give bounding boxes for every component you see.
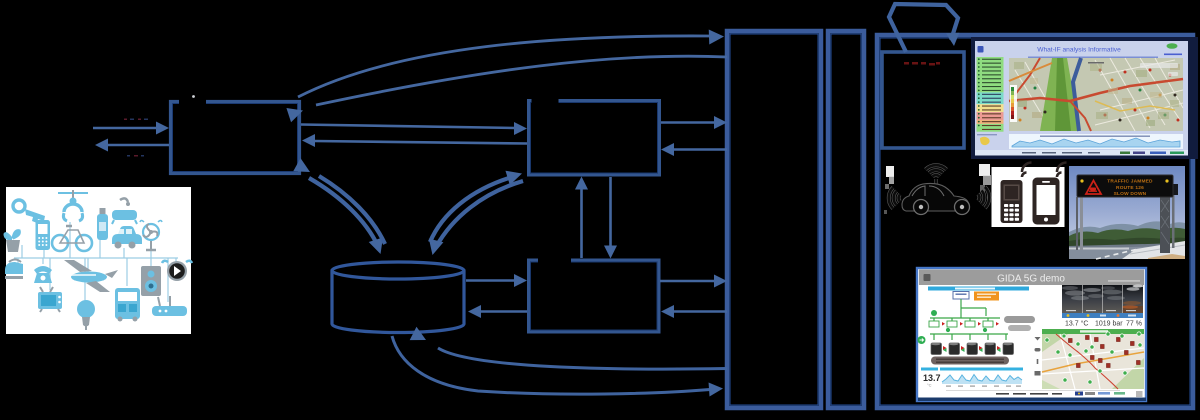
phones white background bbox=[992, 167, 1065, 227]
arrow box C to cylinder D bbox=[468, 305, 527, 318]
svg-text:1019 bar: 1019 bar bbox=[1095, 321, 1123, 328]
gida red/green mini arrows bbox=[942, 322, 999, 326]
car window line bbox=[912, 186, 944, 196]
GIDA 5G demo dashboard bbox=[917, 268, 1146, 401]
iot drone person icon bbox=[58, 190, 88, 221]
VMS yellow beacons bbox=[1080, 179, 1083, 182]
phones clipart bbox=[992, 163, 1067, 228]
car roof wifi arcs bbox=[926, 165, 947, 176]
map red congested roads bbox=[1009, 79, 1183, 101]
feature phone bbox=[1001, 180, 1023, 223]
highway photo with VMS sign bbox=[1069, 166, 1185, 259]
black label cutout on box B bbox=[532, 90, 559, 105]
fat curve box A to cylinder bbox=[309, 178, 388, 256]
svg-text:13.7: 13.7 bbox=[923, 373, 941, 383]
whatif top-right logo bbox=[1167, 43, 1178, 49]
arrow box C to box E bbox=[660, 275, 727, 288]
svg-text:GIDA 5G demo: GIDA 5G demo bbox=[997, 274, 1065, 285]
highway lamp mast bbox=[1172, 186, 1175, 248]
box A (left module) bbox=[171, 102, 300, 174]
smartphone wifi bbox=[1057, 163, 1067, 178]
iot rotary phone icon bbox=[34, 266, 52, 283]
black label cutout on box C bbox=[538, 253, 571, 264]
iot alarm clock icon bbox=[162, 261, 192, 281]
arrow cylinder D to box C bbox=[466, 274, 527, 287]
whatif subtitle bbox=[1028, 57, 1158, 59]
VMS sign board bbox=[1077, 175, 1173, 197]
bottom curve cylinder to box E bbox=[392, 336, 723, 396]
iot bath icon bbox=[112, 198, 137, 224]
whatif window bbox=[975, 41, 1188, 155]
arrow box C to box B (vertical up) bbox=[575, 177, 588, 259]
svg-text:13.7 °C: 13.7 °C bbox=[1065, 320, 1088, 328]
gida bottom navy band bbox=[918, 398, 1146, 402]
gida map green circle markers bbox=[1045, 332, 1142, 384]
whatif chart strip bbox=[1009, 134, 1183, 149]
whatif bezel bbox=[971, 37, 1198, 159]
connected car clipart bbox=[884, 164, 991, 215]
iot mobile phone icon bbox=[36, 220, 51, 250]
What-IF analysis screenshot bbox=[971, 37, 1198, 159]
highway hills bbox=[1069, 228, 1185, 250]
gida weather photo strip bbox=[1062, 285, 1144, 314]
small box H (cloud gateway) bbox=[882, 52, 964, 148]
svg-text:SLOW DOWN: SLOW DOWN bbox=[1114, 191, 1147, 197]
fat curve cylinder to box B bbox=[430, 166, 524, 242]
arrow box E to box B bbox=[661, 143, 727, 156]
iot bicycle icon bbox=[52, 226, 92, 251]
car antenna bbox=[934, 179, 937, 190]
whatif footer bbox=[975, 150, 1188, 156]
whatif sidebar rows bbox=[977, 57, 1004, 132]
car body silhouette bbox=[902, 183, 969, 211]
long top curve box A to box E bbox=[298, 29, 724, 97]
iot key icon bbox=[13, 200, 45, 223]
svg-text:77 %: 77 % bbox=[1126, 321, 1142, 328]
IoT clipart image (bottom left) bbox=[4, 187, 192, 334]
svg-text:What-IF analysis Informative: What-IF analysis Informative bbox=[1037, 47, 1121, 54]
iot airplane icon bbox=[64, 260, 118, 292]
tall box E bbox=[727, 31, 821, 408]
box C (lower middle module) bbox=[529, 260, 660, 332]
highway left railing bbox=[1069, 248, 1129, 250]
map green park wedge bbox=[1040, 58, 1080, 131]
car white remnant patch right bbox=[979, 164, 991, 200]
highway sky bbox=[1069, 166, 1185, 248]
iot connecting wires bbox=[14, 222, 178, 302]
svg-text:ROUTE 126: ROUTE 126 bbox=[1116, 185, 1144, 191]
highway white barrier bbox=[1122, 241, 1185, 259]
red text remnant in box H bbox=[904, 62, 940, 66]
feature phone wifi bbox=[1022, 163, 1032, 178]
car left wifi arcs bbox=[889, 188, 900, 209]
whatif top-left icon bbox=[978, 46, 984, 53]
map scatter dots bbox=[1019, 69, 1180, 122]
smartphone bbox=[1033, 178, 1060, 225]
map street grid bbox=[1015, 58, 1183, 131]
narrow box F bbox=[828, 31, 864, 408]
gida bottom-left blue bar bbox=[921, 368, 938, 371]
gida flowchart bbox=[918, 292, 1036, 365]
iot router icon bbox=[152, 296, 187, 316]
gida map panel bbox=[1042, 329, 1144, 389]
whatif sidebar footer logo bbox=[977, 134, 997, 135]
gida title bar bbox=[919, 270, 1144, 286]
car right wifi arcs bbox=[978, 187, 989, 208]
highway road bbox=[1069, 246, 1185, 259]
tiny text remnants near left arrows bbox=[124, 119, 148, 157]
iot plant icon bbox=[4, 230, 20, 252]
database cylinder D bbox=[332, 262, 464, 333]
arrow box A to box B bbox=[301, 122, 527, 135]
arrow into box A from far left bbox=[93, 122, 169, 135]
map blue river road bbox=[1073, 58, 1081, 131]
map texture patches bbox=[1014, 62, 1180, 126]
gida window frame bbox=[917, 268, 1146, 401]
iot bulb icon bbox=[77, 300, 95, 330]
gida left panel header bar bbox=[928, 287, 1029, 291]
arrow box B to box A bbox=[302, 134, 527, 147]
iot speaker icon bbox=[141, 266, 161, 296]
iot car icon bbox=[112, 226, 142, 249]
arrow box B to box E bbox=[661, 116, 727, 129]
bottom curve box E to cylinder bbox=[410, 327, 727, 369]
gida server row bbox=[931, 343, 1014, 355]
car wheel left bbox=[914, 200, 929, 215]
iot bottle icon bbox=[97, 208, 108, 240]
highway lane line bbox=[1096, 249, 1138, 259]
svg-text:TRAFFIC JAMMED: TRAFFIC JAMMED bbox=[1107, 179, 1153, 185]
long top curve box E to box A bbox=[286, 56, 727, 122]
arrow box B to box C (vertical down) bbox=[604, 177, 617, 259]
car wheel right bbox=[955, 200, 970, 215]
iot tv icon bbox=[38, 287, 62, 312]
fat curve box B to cylinder bbox=[425, 181, 523, 257]
car white remnant patch left bbox=[884, 166, 894, 214]
iot iron icon bbox=[5, 260, 23, 280]
arrow box E to box C bbox=[661, 305, 727, 318]
whatif map bbox=[1009, 58, 1183, 131]
gida sparkline chart bbox=[942, 375, 1022, 387]
VMS text bbox=[1107, 179, 1153, 198]
map legend bbox=[1010, 85, 1017, 122]
highway distant ridge bbox=[1069, 221, 1185, 244]
VMS warning triangle bbox=[1086, 181, 1101, 195]
gida icon column bbox=[1035, 337, 1041, 376]
container box G (right services area) bbox=[877, 35, 1193, 408]
white dot in label of box A bbox=[192, 95, 195, 98]
box B (upper middle module) bbox=[529, 101, 660, 176]
loop arrow above box H bbox=[889, 4, 959, 52]
iot fan icon bbox=[140, 221, 162, 251]
gida weather blue strip bbox=[1062, 313, 1143, 318]
gida footer bbox=[946, 391, 1143, 398]
arrow out of box A to far left bbox=[95, 139, 169, 152]
svg-text:°C: °C bbox=[927, 383, 932, 388]
gida rack capsule bbox=[931, 357, 1009, 365]
iot bus icon bbox=[115, 288, 140, 322]
highway gantry posts bbox=[1080, 197, 1083, 250]
gida map red building markers bbox=[1068, 335, 1140, 367]
map top right controls bbox=[1140, 63, 1178, 68]
black label cutout on box A bbox=[179, 90, 206, 104]
map top label bbox=[1088, 62, 1104, 64]
fat curve cylinder to box A bbox=[293, 158, 385, 244]
